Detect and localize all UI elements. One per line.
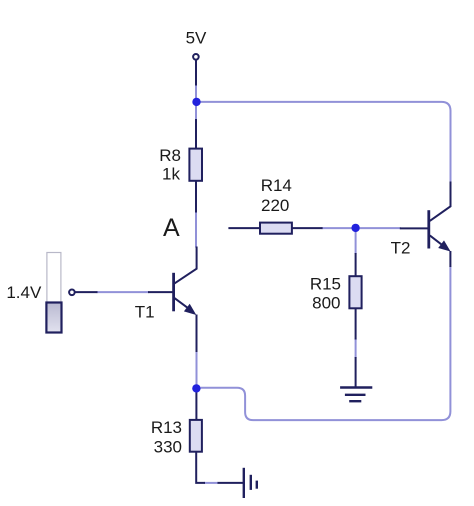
svg-text:A: A xyxy=(163,214,180,242)
svg-text:R8: R8 xyxy=(159,146,181,165)
svg-text:800: 800 xyxy=(312,293,340,312)
svg-text:T2: T2 xyxy=(391,239,411,258)
svg-text:330: 330 xyxy=(154,437,182,456)
svg-text:220: 220 xyxy=(261,196,289,215)
svg-text:R14: R14 xyxy=(261,176,292,195)
svg-text:R15: R15 xyxy=(310,275,341,294)
svg-text:R13: R13 xyxy=(151,418,182,437)
svg-text:5V: 5V xyxy=(186,28,207,47)
svg-text:1.4V: 1.4V xyxy=(6,283,42,302)
svg-text:1k: 1k xyxy=(162,164,180,183)
svg-text:T1: T1 xyxy=(135,302,155,321)
